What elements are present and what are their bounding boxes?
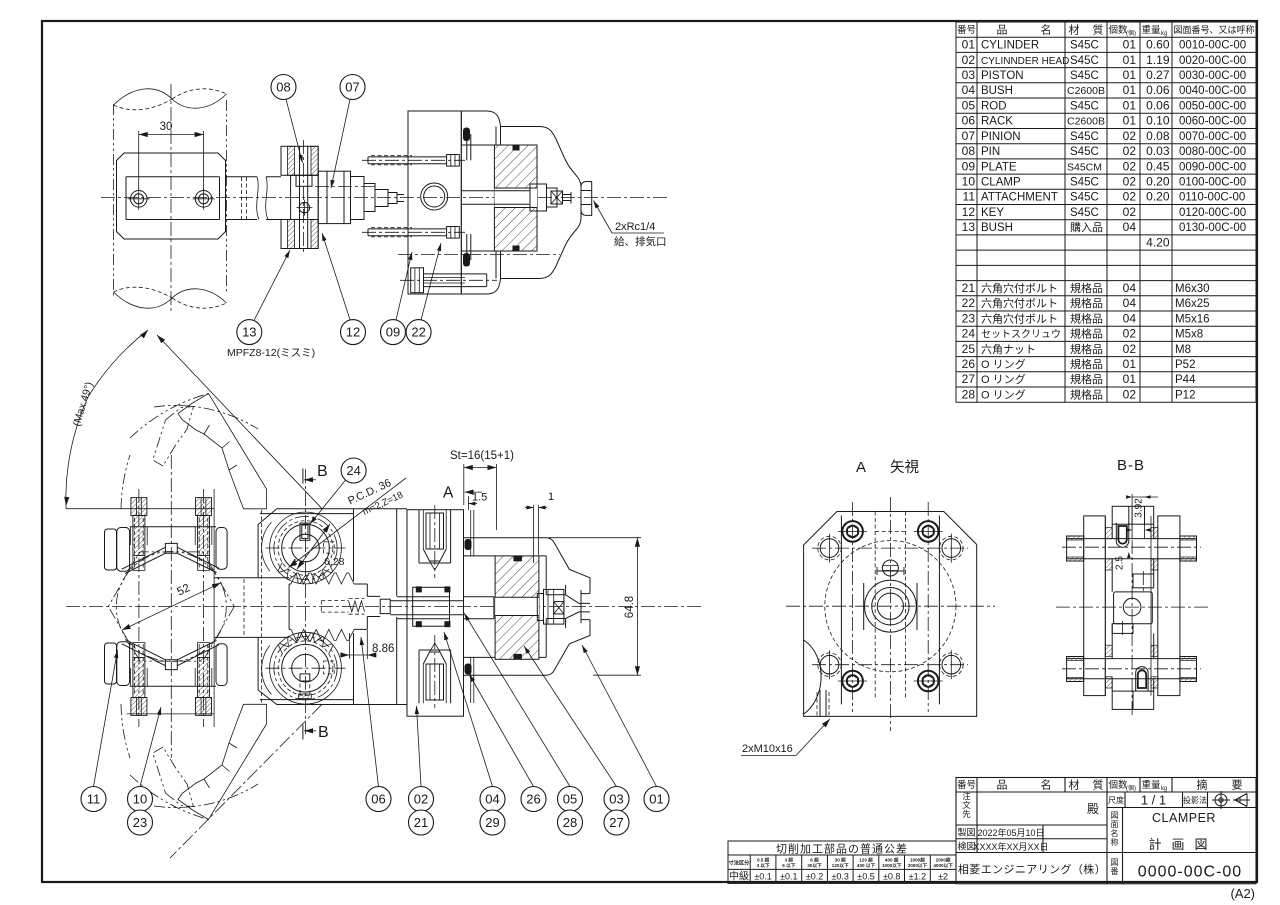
svg-text:1.19: 1.19	[1146, 53, 1170, 67]
gear housing plate 09	[258, 509, 407, 705]
bolt M6x25 at y=232.3	[362, 231, 465, 233]
svg-text:M5x16: M5x16	[1175, 313, 1210, 325]
pinion 07 bottom	[270, 632, 342, 704]
svg-text:07: 07	[345, 80, 359, 95]
svg-text:02: 02	[1123, 190, 1137, 204]
svg-text:重量: 重量	[1141, 779, 1161, 791]
balloon 09	[381, 320, 406, 345]
hex bolt lower	[400, 279, 497, 281]
svg-text:02: 02	[1123, 327, 1137, 341]
svg-text:1000以下: 1000以下	[882, 862, 902, 869]
hex workpiece centerline vertical	[170, 455, 172, 758]
bottom socket bolt	[1136, 667, 1148, 691]
svg-text:MPFZ8-12(ミスミ): MPFZ8-12(ミスミ)	[227, 347, 315, 359]
svg-text:図: 図	[1111, 858, 1119, 867]
svg-text:07: 07	[962, 129, 976, 143]
svg-text:規格品: 規格品	[1070, 296, 1103, 310]
balloon 12	[341, 320, 366, 345]
svg-text:0050-00C-00: 0050-00C-00	[1179, 101, 1246, 113]
svg-text:400 以下: 400 以下	[857, 862, 876, 869]
svg-text:11: 11	[963, 190, 976, 204]
svg-text:0090-00C-00: 0090-00C-00	[1179, 161, 1246, 173]
balloon 13	[237, 320, 262, 345]
svg-text:01: 01	[1123, 357, 1137, 371]
svg-text:0.20: 0.20	[1146, 190, 1170, 204]
svg-text:01: 01	[1123, 114, 1137, 128]
bolt hole	[130, 191, 147, 208]
pinion shaft bores	[1067, 539, 1197, 559]
svg-text:規格品: 規格品	[1070, 372, 1103, 386]
svg-text:2.5: 2.5	[1115, 556, 1126, 570]
svg-text:kg: kg	[1161, 31, 1167, 37]
svg-text:質: 質	[1093, 778, 1104, 792]
workpiece break arcs bottom	[114, 292, 173, 308]
svg-text:六角穴付ボルト: 六角穴付ボルト	[981, 311, 1058, 325]
rod 05 and nut	[461, 191, 530, 205]
cylinder body 01 outline	[408, 111, 581, 215]
svg-text:0060-00C-00: 0060-00C-00	[1179, 116, 1246, 128]
svg-text:05: 05	[962, 99, 976, 113]
set screw hidden	[324, 542, 335, 553]
svg-text:六角穴付ボルト: 六角穴付ボルト	[981, 281, 1058, 295]
svg-text:02: 02	[1123, 144, 1137, 158]
svg-text:CLAMPER: CLAMPER	[1152, 811, 1216, 825]
svg-text:B: B	[318, 724, 329, 741]
svg-text:P52: P52	[1175, 359, 1195, 371]
svg-text:09: 09	[962, 159, 976, 173]
workpiece hex phantom	[108, 552, 234, 661]
attachment plate 11 upper	[105, 529, 117, 570]
svg-text:M8: M8	[1175, 344, 1191, 356]
svg-text:BUSH: BUSH	[981, 85, 1013, 97]
svg-text:0070-00C-00: 0070-00C-00	[1179, 131, 1246, 143]
swing arc phantom upper	[130, 394, 209, 439]
svg-text:切削加工部品の普通公差: 切削加工部品の普通公差	[776, 842, 908, 856]
bolt M6x25 at y=160.3	[362, 159, 465, 161]
svg-text:±0.2: ±0.2	[806, 872, 823, 882]
svg-text:図面番号、又は呼称: 図面番号、又は呼称	[1173, 24, 1254, 35]
svg-text:P12: P12	[1175, 389, 1195, 401]
svg-text:規格品: 規格品	[1070, 281, 1103, 295]
svg-text:0020-00C-00: 0020-00C-00	[1179, 55, 1246, 67]
center boss	[291, 175, 319, 219]
key lower	[300, 674, 310, 681]
bolt counterbore walls	[131, 527, 212, 545]
svg-text:0040-00C-00: 0040-00C-00	[1179, 85, 1246, 97]
svg-text:0.08: 0.08	[1146, 129, 1170, 143]
svg-text:品: 品	[997, 24, 1008, 37]
upper blade (open position)	[178, 394, 267, 509]
svg-text:24: 24	[346, 463, 360, 478]
svg-text:C2600B: C2600B	[1067, 85, 1105, 97]
label 2xRc1/4	[594, 201, 613, 234]
svg-text:06: 06	[962, 114, 976, 128]
dimension 3.92	[1132, 496, 1158, 498]
center column verticals	[1112, 524, 1154, 538]
svg-text:04: 04	[962, 83, 976, 97]
svg-text:0110-00C-00: 0110-00C-00	[1179, 192, 1245, 204]
cylinder assembly (top view right)	[362, 111, 667, 294]
svg-text:投影法: 投影法	[1183, 795, 1207, 805]
phantom pad lower	[153, 747, 194, 807]
svg-text:0.27: 0.27	[1146, 68, 1170, 82]
hidden rack slot verticals	[875, 512, 905, 701]
svg-text:セットスクリュウ: セットスクリュウ	[981, 329, 1061, 341]
key 24	[300, 523, 310, 540]
svg-text:±0.3: ±0.3	[831, 872, 848, 882]
svg-text:0.03: 0.03	[1146, 144, 1170, 158]
plate 09 right column	[1158, 516, 1180, 696]
svg-text:先: 先	[962, 809, 971, 819]
main axis centerline	[101, 197, 668, 199]
tapped hole lines bottom-left	[820, 690, 826, 716]
svg-text:120以下: 120以下	[832, 862, 849, 869]
svg-text:±0.1: ±0.1	[754, 872, 771, 882]
svg-text:02: 02	[1123, 129, 1137, 143]
svg-text:04: 04	[485, 792, 499, 807]
lower-left boss arc	[804, 640, 822, 714]
svg-text:2000以下: 2000以下	[908, 862, 928, 869]
svg-text:02: 02	[1123, 175, 1137, 189]
cylinder head 02 front	[407, 510, 464, 717]
o-ring 27	[463, 128, 470, 142]
svg-text:購入品: 購入品	[1070, 220, 1103, 234]
balloon 10	[128, 787, 153, 812]
svg-text:図: 図	[1111, 811, 1119, 820]
svg-text:B: B	[317, 463, 328, 480]
svg-text:A: A	[443, 485, 454, 502]
dimension 64.8	[548, 538, 641, 676]
main axis centerline	[66, 606, 702, 608]
lower blade (open position)	[178, 704, 267, 819]
phantom open arm positions and swing arcs	[64, 330, 322, 858]
svg-text:30: 30	[160, 121, 173, 133]
svg-text:22: 22	[411, 325, 425, 340]
svg-text:27: 27	[962, 372, 976, 386]
hex socket bolt at 928,531	[918, 521, 939, 542]
bolt hole	[195, 191, 212, 208]
balloon 21	[409, 810, 434, 835]
svg-text:0.45: 0.45	[1146, 159, 1170, 173]
svg-text:2xM10x16: 2xM10x16	[742, 743, 793, 755]
svg-text:06: 06	[371, 792, 385, 807]
hex socket bolt at 853,531	[842, 521, 863, 542]
svg-text:25: 25	[962, 342, 976, 356]
svg-text:CYLINDER: CYLINDER	[981, 40, 1039, 52]
svg-text:4.20: 4.20	[1146, 236, 1170, 250]
svg-text:S45C: S45C	[1070, 207, 1099, 219]
through hole at 830,665	[820, 655, 839, 674]
svg-text:O リング: O リング	[981, 357, 1026, 371]
svg-text:PINION: PINION	[981, 131, 1021, 143]
svg-text:CYLINNDER HEAD: CYLINNDER HEAD	[981, 56, 1069, 67]
svg-text:O リング: O リング	[981, 387, 1026, 401]
B section line	[305, 469, 307, 734]
clamp plates part 09 upper	[281, 146, 318, 175]
svg-text:O リング: O リング	[981, 372, 1026, 386]
center bore circles	[865, 580, 917, 632]
body outline	[804, 512, 977, 717]
svg-text:02: 02	[962, 53, 976, 67]
rod bush 04	[413, 587, 450, 626]
svg-text:04: 04	[1123, 220, 1137, 234]
hex socket bolt at 928,681	[918, 671, 939, 692]
port passage lines	[471, 510, 474, 703]
svg-text:±1.2: ±1.2	[909, 872, 926, 882]
svg-text:0.60: 0.60	[1146, 38, 1170, 52]
svg-text:CLAMP: CLAMP	[981, 177, 1021, 189]
svg-text:2022年05月10日: 2022年05月10日	[977, 827, 1044, 838]
svg-text:27: 27	[609, 815, 623, 830]
clamp plates part 09 lower	[281, 220, 318, 249]
svg-text:S45C: S45C	[1070, 146, 1099, 158]
svg-text:規格品: 規格品	[1070, 342, 1103, 356]
svg-text:13: 13	[962, 220, 976, 234]
balloon 05	[558, 787, 583, 812]
arm bar	[226, 177, 282, 220]
svg-text:13: 13	[242, 325, 256, 340]
svg-text:12: 12	[346, 325, 360, 340]
svg-text:01: 01	[1123, 83, 1137, 97]
balloon 08	[271, 75, 296, 100]
balloon 03	[604, 787, 629, 812]
svg-text:摘: 摘	[1197, 778, 1208, 792]
svg-text:中級: 中級	[729, 870, 749, 883]
svg-text:S45C: S45C	[1070, 101, 1099, 113]
inner solid verticals	[841, 516, 939, 705]
svg-text:±0.5: ±0.5	[857, 872, 874, 882]
svg-text:0100-00C-00: 0100-00C-00	[1179, 177, 1246, 189]
svg-text:26: 26	[962, 357, 976, 371]
swing arc phantom lower	[130, 775, 209, 820]
svg-text:01: 01	[962, 38, 976, 52]
max49 reference line	[66, 508, 214, 510]
balloon 24	[341, 458, 366, 483]
balloon 28	[558, 810, 583, 835]
svg-text:28: 28	[962, 387, 976, 401]
piston 03 front (hatched)	[495, 556, 539, 659]
head bolt 22 upper	[426, 513, 444, 549]
svg-text:02: 02	[1123, 159, 1137, 173]
workpiece bar phantom outline	[113, 104, 115, 296]
B section marks	[302, 469, 304, 484]
balloon 29	[480, 810, 505, 835]
svg-text:8.86: 8.86	[372, 643, 394, 655]
svg-text:番号: 番号	[957, 779, 976, 791]
svg-text:09: 09	[386, 325, 400, 340]
svg-text:01: 01	[649, 792, 663, 807]
rack thread hole hidden	[321, 601, 348, 613]
svg-text:(A2): (A2)	[1230, 886, 1255, 901]
balloon 26	[521, 787, 546, 812]
svg-text:S45C: S45C	[1070, 177, 1099, 189]
svg-text:M6x30: M6x30	[1175, 283, 1210, 295]
svg-text:称: 称	[1111, 837, 1119, 847]
svg-text:ATTACHMENT: ATTACHMENT	[981, 192, 1058, 204]
svg-text:0.06: 0.06	[1146, 99, 1170, 113]
svg-text:±2: ±2	[938, 872, 948, 882]
svg-text:30以下: 30以下	[807, 862, 822, 869]
svg-text:10: 10	[133, 792, 147, 807]
hex socket bolt at 853,681	[842, 671, 863, 692]
balloon 27	[604, 810, 629, 835]
svg-text:28: 28	[563, 815, 577, 830]
plate 09 left column	[1084, 516, 1106, 696]
rack 06	[288, 584, 290, 629]
rack section center	[1133, 574, 1154, 588]
svg-text:11: 11	[87, 792, 101, 807]
rod collar / nut 25	[464, 597, 494, 619]
workpiece centerline	[170, 84, 172, 314]
balloon 02	[409, 787, 434, 812]
svg-text:M5x8: M5x8	[1175, 329, 1203, 341]
tolerance table	[728, 841, 956, 883]
svg-text:0130-00C-00: 0130-00C-00	[1179, 222, 1246, 234]
svg-text:04: 04	[1123, 311, 1137, 325]
svg-text:RACK: RACK	[981, 116, 1013, 128]
svg-text:3.92: 3.92	[1134, 498, 1145, 518]
svg-text:S45C: S45C	[1070, 192, 1099, 204]
svg-text:02: 02	[1123, 342, 1137, 356]
svg-text:6.28: 6.28	[324, 556, 345, 568]
balloon 07	[340, 75, 365, 100]
BOM parts list table	[956, 22, 1256, 402]
dimension 8.86	[349, 630, 367, 659]
svg-text:0.20: 0.20	[1146, 175, 1170, 189]
clamp arm hub tabs	[1067, 536, 1084, 561]
svg-text:KEY: KEY	[981, 207, 1004, 219]
svg-text:0000-00C-00: 0000-00C-00	[1138, 864, 1242, 881]
svg-text:S45C: S45C	[1070, 40, 1099, 52]
phantom pad upper	[153, 407, 194, 467]
svg-text:0.06: 0.06	[1146, 83, 1170, 97]
svg-text:1: 1	[548, 491, 554, 503]
svg-text:0080-00C-00: 0080-00C-00	[1179, 146, 1246, 158]
balloon 22	[406, 320, 431, 345]
svg-text:番号: 番号	[957, 24, 976, 36]
pinion 07 top	[270, 512, 342, 584]
svg-text:02: 02	[1123, 205, 1137, 219]
bottom cap block	[1112, 691, 1154, 709]
svg-text:B-B: B-B	[1117, 457, 1145, 474]
cylinder head 02	[408, 111, 461, 294]
centerlines	[786, 605, 995, 607]
lower swing centerline	[170, 704, 322, 858]
svg-text:BUSH: BUSH	[981, 222, 1013, 234]
svg-text:(個): (個)	[1126, 784, 1136, 792]
svg-text:23: 23	[962, 311, 976, 325]
svg-text:PISTON: PISTON	[981, 70, 1024, 82]
svg-text:4000以下: 4000以下	[933, 862, 953, 869]
svg-text:04: 04	[1123, 281, 1137, 295]
svg-text:0030-00C-00: 0030-00C-00	[1179, 70, 1246, 82]
svg-text:04: 04	[1123, 296, 1137, 310]
svg-text:規格品: 規格品	[1070, 357, 1103, 371]
svg-text:1.5: 1.5	[472, 492, 487, 504]
svg-text:4: 4	[291, 557, 297, 569]
49deg ray	[157, 335, 322, 509]
svg-text:規格品: 規格品	[1070, 387, 1103, 401]
svg-text:01: 01	[1123, 372, 1137, 386]
top socket bolt	[1116, 523, 1129, 547]
svg-text:相菱エンジニアリング（株）: 相菱エンジニアリング（株）	[958, 862, 1106, 876]
set screw top	[882, 560, 898, 576]
svg-text:kg: kg	[1161, 786, 1167, 792]
through hole at 951,665	[942, 655, 961, 674]
svg-text:寸法区分: 寸法区分	[729, 859, 751, 867]
max49 dim arc	[66, 397, 88, 509]
dimension 52	[122, 583, 221, 630]
svg-text:名: 名	[1041, 23, 1052, 37]
balloon 11	[81, 787, 106, 812]
svg-text:23: 23	[133, 815, 147, 830]
svg-text:21: 21	[962, 281, 976, 295]
clamp arm 10 upper	[130, 526, 216, 528]
svg-text:02: 02	[1123, 387, 1137, 401]
svg-text:03: 03	[609, 792, 623, 807]
svg-text:尺度: 尺度	[1108, 795, 1124, 805]
svg-text:殿: 殿	[1087, 802, 1099, 816]
centerlines	[1131, 494, 1133, 718]
top cap block	[1112, 506, 1154, 524]
svg-text:08: 08	[962, 144, 976, 158]
attachment plate 11 lower	[105, 643, 117, 684]
svg-text:1 / 1: 1 / 1	[1141, 793, 1166, 808]
svg-text:01: 01	[1123, 53, 1137, 67]
svg-text:01: 01	[1123, 99, 1137, 113]
workpiece bar phantom circle	[116, 552, 226, 662]
svg-text:PIN: PIN	[981, 146, 1000, 158]
svg-text:規格品: 規格品	[1070, 311, 1103, 325]
svg-text:質: 質	[1093, 23, 1104, 37]
svg-text:名: 名	[1041, 778, 1052, 792]
svg-text:21: 21	[414, 815, 428, 830]
svg-text:10: 10	[962, 175, 976, 189]
svg-text:24: 24	[962, 327, 976, 341]
dimension 30	[139, 131, 204, 191]
svg-text:ROD: ROD	[981, 101, 1007, 113]
svg-text:規格品: 規格品	[1070, 327, 1103, 341]
through hole at 951,548	[942, 539, 961, 558]
balloon 06	[366, 787, 391, 812]
svg-text:C2600B: C2600B	[1067, 116, 1105, 128]
cylinder body 01 front	[464, 538, 591, 594]
svg-text:六角ナット: 六角ナット	[981, 343, 1036, 356]
svg-text:29: 29	[485, 815, 499, 830]
svg-text:0.10: 0.10	[1146, 114, 1170, 128]
bolts 21 upper/lower	[138, 489, 140, 727]
svg-text:品: 品	[997, 779, 1008, 792]
through hole at 830,548	[820, 539, 839, 558]
svg-text:(個): (個)	[1126, 29, 1136, 37]
svg-text:S45C: S45C	[1070, 55, 1099, 67]
svg-text:12: 12	[962, 205, 976, 219]
clamp arm 10 lower	[130, 685, 216, 687]
bush 13 hatched strips	[1105, 528, 1112, 539]
svg-text:面: 面	[1111, 820, 1119, 829]
svg-text:材: 材	[1069, 778, 1080, 792]
pin 08	[300, 146, 308, 248]
gear pocket arcs	[262, 522, 272, 571]
svg-text:03: 03	[962, 68, 976, 82]
svg-text:要: 要	[1232, 779, 1243, 792]
svg-text:64.8: 64.8	[624, 596, 636, 618]
pinion housing / pinion 07	[318, 171, 350, 223]
svg-text:材: 材	[1069, 23, 1080, 37]
svg-text:番: 番	[1111, 866, 1119, 876]
svg-text:製図: 製図	[957, 827, 975, 838]
dimension 6	[1126, 528, 1132, 532]
